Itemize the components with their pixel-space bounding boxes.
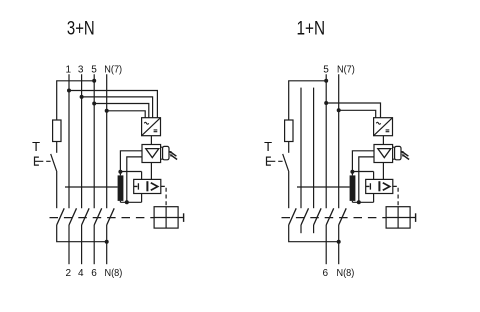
current transformer core bar [350, 175, 356, 201]
svg-text:1: 1 [66, 65, 72, 76]
wire unused pole 2 stub [313, 88, 315, 209]
svg-text:6: 6 [91, 268, 97, 279]
relay I> box [134, 179, 161, 193]
switch pole 2 blade [314, 208, 322, 225]
power supply AC/DC converter box [374, 118, 393, 136]
arrow indicator arrow 2 [171, 155, 177, 159]
node CT secondary bottom junction [125, 200, 129, 204]
wire test return to N [57, 225, 107, 242]
wire L3 lower conductor [93, 225, 95, 264]
switch pole N blade [339, 208, 347, 225]
switch pole 3 blade [94, 208, 102, 225]
switch pole L blade [326, 208, 334, 225]
node test tap on L3 [92, 79, 96, 83]
current transformer core bar [118, 175, 124, 201]
wire CT secondary B to amplifier [127, 157, 142, 202]
wire test contact to pole row [288, 172, 290, 208]
switch pole 1 blade [69, 208, 77, 225]
wire resistor to test contact [56, 142, 58, 153]
actuator end bar [183, 213, 185, 222]
wire L3 to power supply [94, 104, 149, 118]
wire unused pole 1 stub [300, 88, 302, 209]
svg-text:1+N: 1+N [297, 19, 326, 40]
mechanical linkage dashed [282, 217, 387, 219]
wire test contact to pole row [56, 172, 58, 208]
svg-text:2: 2 [66, 268, 72, 279]
wire relay branch verticals [373, 172, 375, 203]
svg-text:N(7): N(7) [337, 65, 355, 76]
wire amplifier to current relay [150, 163, 152, 180]
push-button actuator E symbol [267, 157, 283, 166]
wire L1 to power supply [69, 91, 157, 118]
node test return junction on N [337, 240, 341, 244]
trip coil actuator box [154, 207, 178, 228]
svg-text:N(8): N(8) [337, 268, 355, 279]
mechanical linkage dashed [50, 217, 155, 219]
node N tap [337, 108, 341, 112]
wire CT bar bottom stub [119, 201, 121, 202]
arrow indicator arrow 1 [170, 152, 176, 156]
svg-text:T: T [32, 139, 40, 154]
svg-text:N(8): N(8) [105, 268, 123, 279]
svg-text:5: 5 [323, 65, 329, 76]
wire L1 lower conductor [68, 225, 70, 264]
op-amp amplifier box with triangle [374, 145, 393, 163]
trip coil actuator box [386, 207, 410, 228]
node CT secondary top junction [118, 170, 122, 174]
wire relay bottom rail [120, 201, 141, 203]
node CT secondary bottom junction [357, 200, 361, 204]
switch pole 2 blade [82, 208, 90, 225]
wire L2 lower conductor [81, 225, 83, 264]
wire L3 upper conductor [93, 74, 95, 208]
switch pole 1 blade [301, 208, 309, 225]
switch test blade [57, 208, 64, 225]
op-amp amplifier box with triangle [142, 145, 161, 163]
svg-text:N(7): N(7) [104, 65, 122, 76]
wire power supply to amplifier [150, 136, 152, 145]
CT core line through conductors [297, 186, 350, 188]
wire dashed relay output to trip coil [161, 186, 166, 206]
indicator element on amplifier [393, 147, 395, 159]
node L2 tap [80, 95, 84, 99]
wire CT bar bottom stub [351, 201, 353, 202]
wire resistor to test contact [288, 142, 290, 153]
resistor test resistor [285, 120, 293, 142]
switch test blade [289, 208, 297, 225]
indicator element on amplifier [161, 147, 163, 159]
svg-text:5: 5 [91, 65, 97, 76]
svg-text:6: 6 [323, 268, 329, 279]
arrow indicator arrow 1 [402, 152, 408, 156]
wire N lower conductor [106, 225, 108, 264]
wire relay branch verticals [141, 172, 143, 203]
wire amplifier to current relay [382, 163, 384, 180]
wire actuator shaft [154, 217, 184, 219]
wire L to power supply [326, 103, 380, 118]
wire N lower conductor [338, 225, 340, 264]
wire N upper conductor [106, 74, 108, 208]
wire L2 upper conductor [81, 74, 83, 208]
node test tap on L [324, 79, 328, 83]
node N tap [105, 109, 109, 113]
actuator end bar [415, 213, 417, 222]
svg-text:3+N: 3+N [67, 19, 95, 40]
node L tap [324, 101, 328, 105]
switch pole N blade [107, 208, 115, 225]
switch test contact blade [51, 154, 57, 172]
wire power supply to amplifier [382, 136, 384, 145]
node L1 tap [67, 89, 71, 93]
switch test contact blade [283, 154, 289, 172]
wire unused pole 1 lower stub [300, 225, 302, 233]
wire relay bottom rail [352, 201, 373, 203]
relay I> box [366, 179, 393, 193]
wire L2 to power supply [82, 97, 153, 118]
node CT secondary top junction [350, 170, 354, 174]
wire N to power supply [107, 111, 146, 118]
wire N to power supply [339, 110, 376, 117]
wire L lower conductor [325, 225, 327, 264]
wire actuator shaft [386, 217, 416, 219]
wire L1 upper conductor [68, 74, 70, 208]
wire CT secondary A to amplifier [120, 151, 142, 176]
arrow indicator arrow 2 [403, 155, 409, 159]
wire relay top rail [352, 171, 373, 173]
wire unused pole 2 lower stub [313, 225, 315, 233]
power supply AC/DC converter box [142, 118, 161, 136]
wire test branch from L3 [57, 81, 94, 120]
wire CT secondary B to amplifier [359, 157, 374, 202]
push-button actuator E symbol [35, 157, 51, 166]
wire L upper conductor [325, 74, 327, 208]
wire N upper conductor [338, 74, 340, 208]
wire dashed relay output to trip coil [393, 186, 398, 206]
CT core line through conductors [65, 186, 118, 188]
node test return junction on N [105, 240, 109, 244]
svg-text:4: 4 [78, 268, 84, 279]
wire test branch from L [289, 81, 327, 120]
svg-text:T: T [264, 139, 272, 154]
wire relay top rail [120, 171, 141, 173]
node L3 tap [92, 102, 96, 106]
resistor test resistor [53, 120, 61, 142]
svg-text:3: 3 [78, 65, 84, 76]
wire test return to N [289, 225, 339, 242]
wire CT secondary A to amplifier [352, 151, 374, 176]
